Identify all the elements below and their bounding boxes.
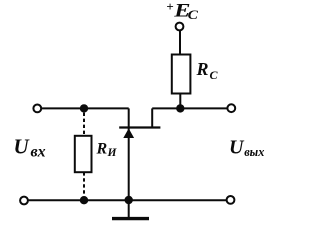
wire source lead (input wire corner down to channel) <box>128 108 130 127</box>
label Ri <box>96 141 118 160</box>
svg-text:U: U <box>14 135 31 159</box>
wire input terminal to source corner <box>41 107 129 109</box>
svg-text:C: C <box>210 68 219 82</box>
label Uvyx <box>229 137 264 160</box>
wire Rc bottom to drain node <box>179 94 181 109</box>
wire Ec terminal to Rc top <box>179 30 181 55</box>
transistor VT channel bar <box>119 126 160 128</box>
svg-text:R: R <box>96 141 108 158</box>
wire dashed lead Ri bottom <box>83 172 85 196</box>
label Rc <box>196 59 219 82</box>
node drain junction <box>176 104 184 112</box>
svg-text:И: И <box>107 147 118 159</box>
node Ri bottom junction <box>80 196 88 204</box>
label Uvx <box>14 135 46 161</box>
svg-text:+: + <box>166 0 173 14</box>
wire dashed lead Ri top <box>83 113 85 136</box>
wire drain lead <box>151 108 153 127</box>
terminal bottom right <box>227 196 235 204</box>
svg-text:вх: вх <box>31 143 46 160</box>
wire ground stub <box>128 200 130 217</box>
svg-text:вых: вых <box>244 145 264 159</box>
wire drain node to output terminal <box>152 107 227 109</box>
ground <box>112 217 149 220</box>
terminal input <box>33 105 41 113</box>
svg-text:C: C <box>188 8 199 23</box>
resistor Rc <box>172 55 191 94</box>
wire gate lead to bottom rail <box>128 128 130 199</box>
resistor Ri <box>75 136 92 172</box>
terminal +Ec <box>176 23 184 31</box>
terminal bottom left <box>20 197 28 205</box>
terminal output top <box>227 104 235 112</box>
node +Ec label <box>166 0 198 23</box>
svg-text:U: U <box>229 137 245 159</box>
node input junction <box>80 104 88 112</box>
node gate-rail junction <box>125 196 133 204</box>
wire bottom rail <box>28 199 227 201</box>
transistor VT gate arrow <box>123 128 134 138</box>
svg-text:R: R <box>196 59 209 79</box>
